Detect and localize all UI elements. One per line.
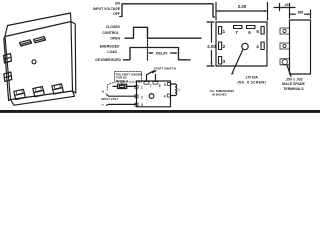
- svg-text:.170 DIA: .170 DIA: [245, 76, 259, 80]
- svg-text:INPUT VOLT: INPUT VOLT: [101, 97, 118, 101]
- svg-text:CONTROL: CONTROL: [102, 31, 119, 35]
- svg-text:7: 7: [150, 84, 152, 88]
- dim square front view: [216, 22, 267, 66]
- left dim line 2.00: [211, 23, 213, 65]
- dim .25 extension: [280, 4, 290, 19]
- delay arrow left: [149, 52, 153, 54]
- svg-text:4: 4: [256, 44, 259, 49]
- schematic main box: [137, 81, 171, 107]
- svg-text:5: 5: [256, 29, 259, 34]
- svg-text:DELAY: DELAY: [156, 51, 168, 55]
- svg-text:IN INCHES: IN INCHES: [212, 92, 227, 96]
- schematic center hole: [149, 94, 154, 99]
- fuse box on wire to terminal 1: [118, 84, 127, 88]
- svg-text:2: 2: [141, 95, 143, 99]
- svg-text:.985: .985: [297, 10, 304, 14]
- svg-text:TERMINALS: TERMINALS: [283, 87, 304, 91]
- svg-text:.250 x .032: .250 x .032: [285, 78, 303, 82]
- delay reference dashed line: [147, 29, 149, 61]
- side spade 3: [280, 59, 290, 65]
- svg-text:START SWITCH: START SWITCH: [154, 67, 176, 71]
- bottom rule: [0, 110, 320, 113]
- svg-text:INPUT VOLTAGE: INPUT VOLTAGE: [93, 7, 121, 11]
- svg-text:2.00: 2.00: [238, 4, 247, 9]
- svg-text:ON: ON: [115, 2, 121, 6]
- svg-text:5: 5: [164, 83, 166, 87]
- svg-text:L: L: [179, 88, 181, 92]
- side spade 1: [280, 28, 290, 34]
- start switch blade: [147, 71, 155, 75]
- input voltage waveform: [120, 4, 215, 17]
- terminal 5 spade: [167, 83, 170, 86]
- svg-text:4: 4: [164, 94, 166, 98]
- dim center hole: [242, 43, 248, 49]
- left spade terminal lower: [4, 72, 12, 82]
- note leader to plus: [107, 83, 113, 91]
- left spade terminal upper: [4, 54, 12, 64]
- svg-text:DE-ENERGIZED: DE-ENERGIZED: [95, 58, 121, 62]
- bottom spade terminal 3: [52, 84, 64, 94]
- terminal 6 stub and spade: [155, 75, 157, 81]
- control waveform: [125, 27, 201, 38]
- load waveform: [124, 48, 191, 60]
- svg-text:1: 1: [141, 85, 143, 89]
- bottom spade terminal 2: [33, 87, 45, 97]
- dim terminal 7: [234, 26, 243, 29]
- bottom spade terminal 1: [14, 89, 26, 99]
- spade leader: [287, 65, 291, 77]
- svg-text:OFF: OFF: [113, 12, 120, 16]
- note leader to fuse: [121, 82, 123, 84]
- terminal 7 stub and spade: [146, 75, 148, 81]
- terminal 3 spade: [135, 103, 138, 106]
- dim terminal 3: [219, 57, 222, 65]
- load coil: [176, 84, 177, 96]
- relay cube right face: [71, 22, 76, 94]
- svg-text:2.00: 2.00: [207, 44, 216, 49]
- svg-text:MALE SPADE: MALE SPADE: [282, 82, 305, 86]
- wire input minus to terminal 3: [109, 103, 137, 105]
- dim terminal 4: [261, 42, 264, 50]
- dim .985 extension: [310, 10, 312, 18]
- top dim line 2.00: [217, 10, 267, 12]
- mounting hole on face: [32, 60, 36, 64]
- left dim extension lines: [207, 22, 214, 66]
- svg-text:LOAD: LOAD: [107, 50, 117, 54]
- side view body: [290, 20, 311, 74]
- svg-text:3: 3: [141, 103, 143, 107]
- svg-text:1: 1: [223, 29, 226, 34]
- svg-text:.25: .25: [284, 3, 289, 7]
- dim .985 line: [290, 13, 311, 15]
- dim terminal 6: [247, 26, 256, 29]
- terminal 6 flat spade on face: [34, 37, 46, 43]
- relay cube front face: [5, 22, 73, 100]
- wire to terminal 1: [113, 85, 137, 87]
- svg-text:OPEN: OPEN: [110, 36, 120, 40]
- delay arrow right: [171, 52, 177, 54]
- svg-text:2: 2: [223, 44, 226, 49]
- terminal 4 spade: [167, 94, 170, 97]
- schematic note box dashed: [115, 72, 142, 83]
- svg-text:(NO. 8 SCREW): (NO. 8 SCREW): [238, 81, 267, 85]
- terminal 1 spade: [135, 85, 138, 88]
- start switch leader: [153, 71, 157, 73]
- svg-text:ENERGIZED: ENERGIZED: [100, 44, 120, 48]
- relay cube bottom face: [11, 91, 75, 105]
- dim terminal 1: [219, 27, 222, 35]
- svg-text:CLOSED: CLOSED: [106, 25, 121, 29]
- svg-text:7: 7: [235, 30, 238, 35]
- relay cube left facet: [4, 37, 11, 101]
- dim .25 line: [274, 7, 295, 9]
- dim terminal 5: [261, 27, 264, 35]
- terminal 7 flat spade on face: [20, 40, 32, 46]
- wire input plus to terminal 2: [109, 95, 137, 97]
- load wires: [171, 84, 176, 96]
- hole leader: [232, 49, 243, 74]
- dim terminal 2: [219, 42, 222, 50]
- svg-text:MODELS: MODELS: [116, 79, 128, 83]
- svg-text:6: 6: [248, 30, 251, 35]
- svg-text:−: −: [101, 102, 104, 107]
- svg-text:6: 6: [159, 84, 161, 88]
- relay cube top face: [5, 13, 71, 37]
- svg-text:3: 3: [223, 59, 226, 64]
- top dim extension lines: [216, 3, 268, 21]
- side spade 2: [280, 43, 290, 49]
- terminal 2 spade: [135, 95, 138, 98]
